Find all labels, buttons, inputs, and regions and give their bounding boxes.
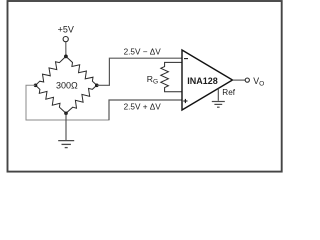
resistor bridge arm bottom-left: [36, 85, 67, 113]
pin mark - (inverting input): [184, 58, 188, 60]
junction bridge right node: [95, 84, 99, 88]
pin mark + (non-inverting input): [183, 99, 187, 103]
junction bridge bottom node: [64, 112, 68, 116]
resistor bridge arm bottom-right: [66, 85, 97, 113]
resistor RG: [161, 62, 182, 91]
resistor bridge arm top-right: [66, 56, 97, 85]
wire bridge bottom node to ground: [65, 113, 67, 140]
junction bridge left node: [34, 84, 38, 88]
svg-text:300Ω: 300Ω: [56, 81, 78, 91]
wire +5V to bridge top node: [65, 42, 67, 57]
svg-text:INA128: INA128: [187, 76, 218, 86]
svg-text:2.5V − ΔV: 2.5V − ΔV: [124, 48, 162, 57]
wire segment step up to +input: [109, 100, 182, 120]
wire left node to +input (left, down, right, up, right): [26, 85, 110, 120]
wire output: [233, 79, 246, 81]
wire right node to -input (right, up, right): [97, 58, 182, 85]
border frame: [8, 1, 282, 172]
wire Ref pin to ground: [217, 89, 219, 101]
resistor bridge arm top-left: [36, 56, 66, 85]
op-amp U1 INA128: [182, 50, 233, 110]
ground (Ref): [212, 102, 225, 108]
ground (bridge): [58, 141, 74, 148]
junction bridge top node: [64, 55, 68, 59]
terminal VO: [245, 78, 249, 82]
terminal +5V: [63, 37, 68, 42]
svg-text:+5V: +5V: [58, 25, 74, 35]
svg-text:Ref: Ref: [222, 88, 235, 97]
svg-text:2.5V + ΔV: 2.5V + ΔV: [124, 102, 162, 111]
